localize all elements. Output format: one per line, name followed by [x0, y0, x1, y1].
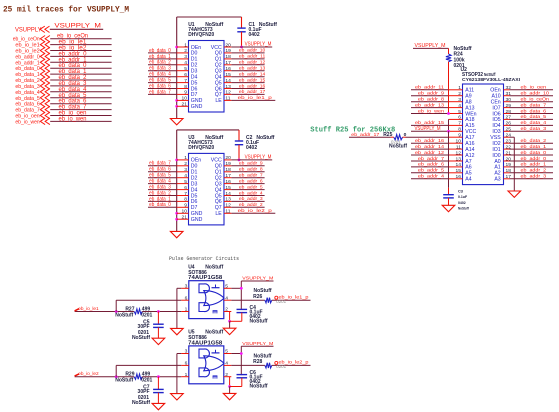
svg-text:eb_addr_4: eb_addr_4: [239, 190, 263, 196]
svg-text:6: 6: [184, 185, 187, 191]
svg-text:19: 19: [225, 48, 231, 54]
svg-text:0201: 0201: [141, 378, 152, 384]
svg-text:eb_data_3: eb_data_3: [521, 126, 547, 132]
svg-text:eb_addr_7: eb_addr_7: [239, 173, 263, 179]
svg-text:5: 5: [225, 284, 228, 290]
svg-text:eb_io_wen: eb_io_wen: [418, 108, 444, 114]
svg-text:eb_addr_6: eb_addr_6: [239, 178, 263, 184]
svg-text:eb_io_le2_p: eb_io_le2_p: [238, 208, 273, 214]
svg-text:7: 7: [458, 121, 461, 127]
svg-text:eb_addr_2: eb_addr_2: [521, 168, 547, 174]
svg-text:14: 14: [225, 78, 231, 84]
svg-text:eb_addr_12: eb_addr_12: [239, 60, 266, 66]
svg-text:5: 5: [184, 66, 187, 72]
svg-text:15: 15: [225, 72, 231, 78]
svg-text:21: 21: [182, 102, 188, 108]
svg-text:LE: LE: [215, 98, 222, 104]
svg-text:0201: 0201: [141, 312, 152, 318]
svg-text:16: 16: [456, 174, 462, 180]
svg-text:VSUPPLY_M: VSUPPLY_M: [54, 22, 101, 29]
svg-text:eb_addr_13: eb_addr_13: [239, 66, 266, 72]
svg-text:eb_addr_1: eb_addr_1: [521, 162, 547, 168]
svg-text:VSUPPLY: VSUPPLY: [15, 26, 42, 33]
svg-text:eb_addr_5: eb_addr_5: [418, 168, 444, 174]
svg-text:C3: C3: [458, 189, 464, 194]
svg-text:12: 12: [225, 90, 231, 96]
svg-text:3: 3: [184, 167, 187, 173]
svg-text:eb_io_le1_p: eb_io_le1_p: [238, 95, 273, 101]
svg-text:2: 2: [225, 307, 228, 313]
svg-text:R25: R25: [383, 132, 392, 138]
svg-text:NoStuff: NoStuff: [115, 312, 133, 318]
svg-text:NoStuff: NoStuff: [205, 330, 223, 336]
svg-text:5: 5: [225, 349, 228, 355]
svg-text:A4: A4: [465, 177, 471, 183]
svg-text:25 mil traces for VSUPPLY_M: 25 mil traces for VSUPPLY_M: [3, 5, 129, 14]
svg-text:0201: 0201: [276, 364, 286, 369]
svg-text:eb_addr_11: eb_addr_11: [415, 85, 444, 91]
svg-text:2: 2: [225, 372, 228, 378]
svg-text:6: 6: [185, 295, 188, 301]
svg-text:1: 1: [184, 42, 187, 48]
svg-text:19: 19: [225, 161, 231, 167]
svg-text:4: 4: [184, 60, 187, 66]
svg-text:15: 15: [456, 168, 462, 174]
svg-text:4: 4: [225, 295, 228, 301]
svg-text:4: 4: [225, 361, 228, 367]
svg-text:0201: 0201: [276, 299, 286, 304]
svg-text:9: 9: [458, 133, 461, 139]
svg-text:2: 2: [184, 48, 187, 54]
svg-text:11: 11: [456, 144, 461, 150]
svg-text:0402: 0402: [249, 32, 260, 38]
svg-text:6: 6: [458, 115, 461, 121]
svg-text:eb_data_0: eb_data_0: [149, 202, 171, 208]
svg-text:13: 13: [456, 156, 462, 162]
svg-text:8: 8: [184, 197, 187, 203]
svg-text:R29: R29: [125, 372, 134, 378]
svg-text:10: 10: [182, 96, 188, 102]
svg-text:VSUPPLY_M: VSUPPLY_M: [242, 341, 273, 347]
svg-text:eb_addr_15: eb_addr_15: [239, 77, 266, 83]
svg-text:2: 2: [184, 161, 187, 167]
svg-text:7: 7: [184, 191, 187, 197]
svg-text:eb_data_4: eb_data_4: [521, 120, 547, 126]
svg-text:NoStuff: NoStuff: [250, 319, 268, 325]
svg-text:20: 20: [225, 155, 231, 161]
svg-text:13: 13: [225, 197, 231, 203]
svg-text:3: 3: [458, 97, 461, 103]
svg-text:6: 6: [184, 72, 187, 78]
svg-text:eb_addr_8: eb_addr_8: [418, 97, 444, 103]
svg-text:5: 5: [184, 179, 187, 185]
svg-text:A3: A3: [494, 177, 500, 183]
svg-text:eb_addr_12: eb_addr_12: [415, 150, 444, 156]
svg-text:eb_addr_7: eb_addr_7: [418, 156, 444, 162]
svg-text:eb_data_0: eb_data_0: [521, 150, 547, 156]
svg-text:GND: GND: [191, 217, 203, 223]
svg-text:NoStuff: NoStuff: [256, 135, 274, 141]
svg-text:Pulse Generator Circuits: Pulse Generator Circuits: [169, 256, 239, 262]
svg-text:eb_addr_0: eb_addr_0: [521, 156, 547, 162]
svg-text:10: 10: [456, 139, 462, 145]
svg-text:eb_addr_5: eb_addr_5: [239, 184, 263, 190]
svg-text:VSUPPLY_M: VSUPPLY_M: [242, 276, 273, 282]
svg-text:eb_addr_6: eb_addr_6: [418, 162, 444, 168]
svg-text:18: 18: [225, 167, 231, 173]
svg-text:LE: LE: [215, 211, 222, 217]
svg-text:eb_addr_11: eb_addr_11: [239, 54, 266, 60]
svg-text:eb_io_wen: eb_io_wen: [59, 116, 87, 122]
svg-text:eb_addr_10: eb_addr_10: [521, 91, 550, 97]
svg-text:8: 8: [184, 84, 187, 90]
svg-text:DHVQFN20: DHVQFN20: [188, 145, 214, 151]
svg-text:eb_addr_14: eb_addr_14: [239, 72, 266, 78]
svg-text:CY62138FV30LL-45ZAXI: CY62138FV30LL-45ZAXI: [462, 77, 521, 83]
svg-text:eb_addr_9: eb_addr_9: [239, 161, 263, 167]
svg-text:eb_io_oen: eb_io_oen: [521, 85, 547, 91]
svg-text:eb_addr_3: eb_addr_3: [239, 196, 263, 202]
svg-text:eb_data_7: eb_data_7: [521, 102, 547, 108]
svg-text:12: 12: [225, 203, 231, 209]
svg-text:eb_addr_8: eb_addr_8: [239, 167, 263, 173]
svg-text:NoStuff: NoStuff: [115, 378, 133, 384]
svg-text:eb_io_wen: eb_io_wen: [15, 119, 39, 125]
svg-text:NoStuff: NoStuff: [205, 264, 223, 270]
svg-text:14: 14: [456, 162, 462, 168]
svg-text:4: 4: [184, 173, 187, 179]
svg-text:1: 1: [184, 155, 187, 161]
svg-text:eb_addr_13: eb_addr_13: [415, 102, 444, 108]
svg-text:2: 2: [458, 91, 461, 97]
svg-text:eb_addr_2: eb_addr_2: [239, 202, 263, 208]
svg-text:NoStuff: NoStuff: [250, 384, 268, 390]
svg-text:1: 1: [458, 85, 461, 91]
svg-text:0: 0: [404, 132, 407, 138]
svg-text:R26: R26: [253, 294, 262, 300]
svg-text:eb_addr_16: eb_addr_16: [239, 83, 266, 89]
svg-text:4: 4: [458, 103, 461, 109]
svg-text:NoStuff: NoStuff: [458, 206, 469, 211]
svg-text:15: 15: [225, 185, 231, 191]
svg-text:11: 11: [225, 209, 230, 215]
svg-text:3: 3: [184, 54, 187, 60]
svg-text:12: 12: [456, 150, 462, 156]
svg-text:NoStuff: NoStuff: [132, 335, 150, 341]
svg-text:eb_addr_9: eb_addr_9: [418, 91, 444, 97]
svg-text:9: 9: [184, 90, 187, 96]
svg-text:0402: 0402: [458, 200, 466, 205]
svg-text:eb_addr_3: eb_addr_3: [521, 174, 547, 180]
svg-text:eb_addr_10: eb_addr_10: [239, 48, 266, 54]
svg-text:VSUPPLY_M: VSUPPLY_M: [415, 126, 441, 132]
svg-text:9: 9: [184, 203, 187, 209]
svg-text:eb_data_2: eb_data_2: [521, 138, 547, 144]
svg-text:eb_io_ceOn: eb_io_ceOn: [521, 97, 550, 103]
svg-text:eb_data_7: eb_data_7: [149, 89, 171, 95]
svg-text:eb_data_1: eb_data_1: [521, 144, 547, 150]
svg-text:NoStuff: NoStuff: [259, 22, 277, 28]
svg-text:18: 18: [225, 54, 231, 60]
svg-text:8: 8: [458, 127, 461, 133]
svg-text:5: 5: [458, 109, 461, 115]
svg-text:NoStuff: NoStuff: [132, 400, 150, 406]
svg-text:eb_addr_14: eb_addr_14: [415, 144, 444, 150]
svg-text:11: 11: [225, 96, 230, 102]
svg-text:eb_addr_4: eb_addr_4: [418, 174, 444, 180]
svg-text:1: 1: [185, 307, 188, 313]
svg-text:1: 1: [185, 372, 188, 378]
svg-text:eb_data_6: eb_data_6: [521, 108, 547, 114]
svg-text:16: 16: [225, 66, 231, 72]
svg-text:6: 6: [185, 361, 188, 367]
svg-text:7: 7: [184, 78, 187, 84]
svg-text:eb_data_5: eb_data_5: [521, 114, 547, 120]
svg-text:eb_addr_17: eb_addr_17: [239, 89, 266, 95]
svg-text:14: 14: [225, 191, 231, 197]
svg-text:0402: 0402: [246, 145, 257, 151]
svg-text:eb_addr_16: eb_addr_16: [415, 138, 444, 144]
svg-text:NoStuff: NoStuff: [389, 143, 407, 149]
svg-text:17: 17: [225, 60, 231, 66]
svg-text:16: 16: [225, 179, 231, 185]
svg-text:eb_io_le1: eb_io_le1: [78, 306, 99, 312]
svg-text:VSUPPLY_M: VSUPPLY_M: [245, 155, 272, 161]
svg-text:NoStuff: NoStuff: [484, 72, 496, 77]
svg-text:13: 13: [225, 84, 231, 90]
svg-text:17: 17: [225, 173, 231, 179]
svg-text:21: 21: [182, 215, 188, 221]
svg-text:0201: 0201: [454, 63, 465, 69]
svg-text:3: 3: [185, 284, 188, 290]
svg-text:eb_addr_17: eb_addr_17: [351, 132, 379, 138]
svg-text:VSUPPLY_M: VSUPPLY_M: [245, 42, 272, 48]
svg-text:STSOP32: STSOP32: [462, 72, 483, 78]
svg-text:10: 10: [182, 209, 188, 215]
svg-text:eb_io_le2: eb_io_le2: [78, 371, 99, 377]
svg-text:DHVQFN20: DHVQFN20: [188, 32, 214, 38]
svg-text:R28: R28: [253, 359, 262, 365]
svg-text:GND: GND: [191, 104, 203, 110]
svg-text:R27: R27: [125, 306, 134, 312]
svg-text:0.1uF: 0.1uF: [458, 194, 468, 199]
svg-text:3: 3: [185, 349, 188, 355]
svg-text:20: 20: [225, 42, 231, 48]
